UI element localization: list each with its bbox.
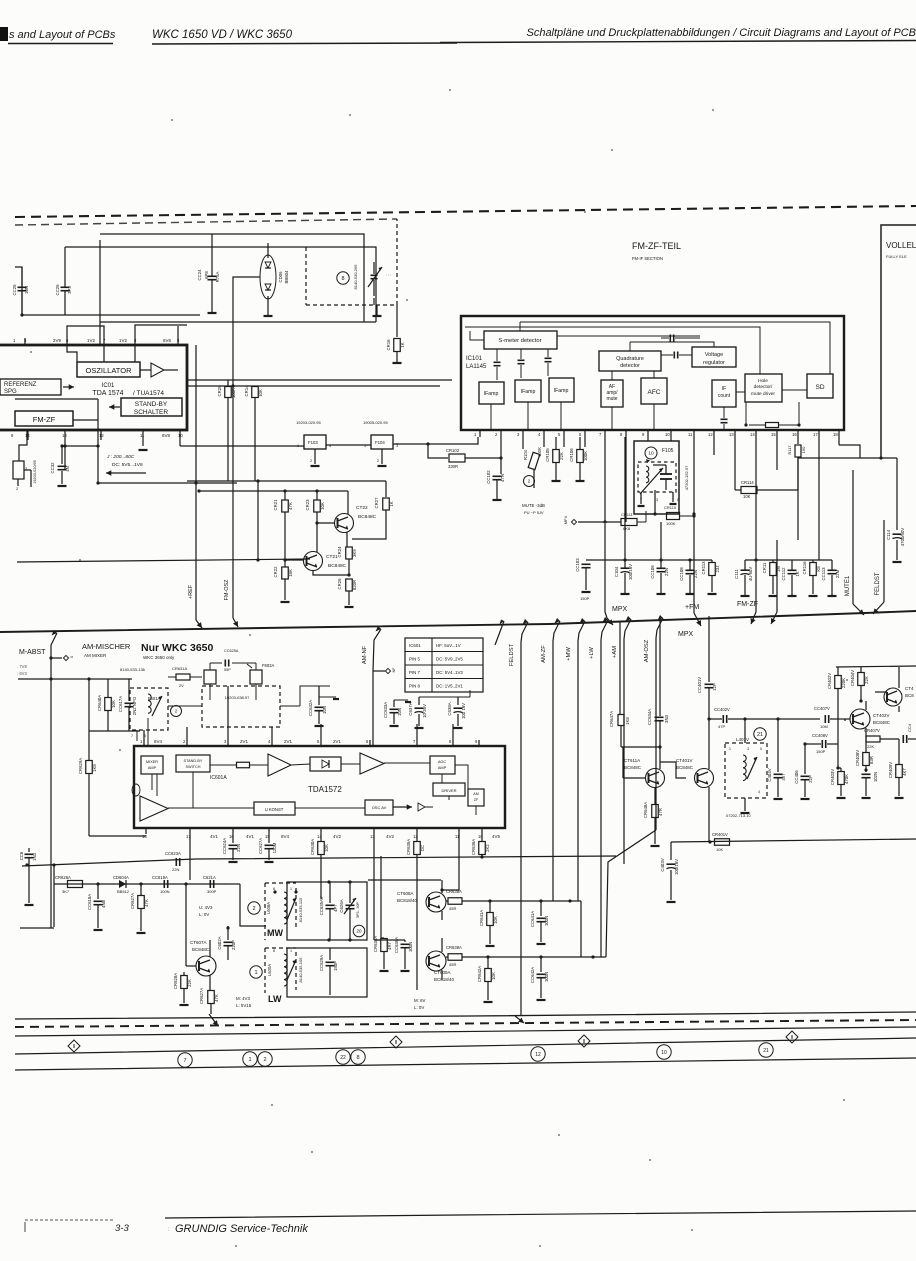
svg-text:21: 21 (757, 732, 763, 738)
svg-text:102N: 102N (873, 772, 878, 782)
svg-text:C403V: C403V (660, 858, 665, 871)
svg-text:MW: MW (267, 928, 283, 938)
block Hole detector mute driver (745, 374, 782, 402)
svg-text:BC818/40: BC818/40 (397, 898, 418, 903)
svg-text:CD06: CD06 (278, 271, 283, 283)
svg-text:CR641A: CR641A (479, 910, 484, 926)
svg-text:CC113: CC113 (821, 567, 826, 581)
block S-meter detector (484, 331, 557, 349)
svg-text:CR113: CR113 (701, 561, 706, 575)
filter F103 (296, 420, 331, 466)
capacitor CC641A (530, 901, 549, 944)
capacitor CC24 (197, 234, 220, 313)
label J temp note (106, 454, 146, 476)
svg-text:15: 15 (771, 432, 776, 437)
svg-text:20: 20 (356, 929, 362, 934)
svg-text:NF: NF (392, 668, 396, 673)
label MUTE1 (845, 470, 864, 615)
wire right stage rails (778, 666, 916, 768)
svg-text:regulator: regulator (703, 360, 725, 366)
connector diamond 1 (68, 1040, 80, 1052)
svg-text:L401V: L401V (736, 737, 749, 742)
svg-text:C626A: C626A (339, 899, 344, 912)
label AM-ABST (17, 649, 46, 676)
filter F105 (634, 437, 689, 516)
wire pin12 bottom rail (96, 399, 237, 485)
svg-text:10K: 10K (258, 389, 263, 397)
svg-text:CR110: CR110 (664, 505, 677, 510)
transistor CT21 BC848C (285, 552, 347, 571)
svg-text:120M: 120M (272, 842, 277, 853)
svg-text:AM-MISCHER: AM-MISCHER (82, 642, 131, 651)
wire oszillator pins (67, 345, 135, 362)
transistor CT608A BC818 (397, 880, 446, 920)
wire osc rail2 (89, 730, 140, 732)
svg-text:7: 7 (183, 1058, 186, 1064)
wire lower rail (17, 559, 310, 562)
svg-text:10: 10 (178, 433, 183, 438)
svg-text:AMP: AMP (438, 766, 447, 770)
svg-text:4R7: 4R7 (387, 941, 392, 949)
wire +REF vertical (196, 345, 202, 628)
svg-text:22: 22 (340, 1055, 346, 1061)
svg-text:CC108: CC108 (679, 567, 684, 581)
svg-text:18K: 18K (288, 569, 293, 577)
block DRIVER (433, 783, 465, 796)
resistor CR642A (477, 957, 496, 1002)
svg-text:1V2: 1V2 (87, 338, 96, 343)
op-amp box OSZILLATOR (77, 362, 140, 377)
svg-text:WKC 3650 only: WKC 3650 only (143, 655, 175, 660)
resistor internal (210, 762, 268, 768)
resistor CR113 (701, 560, 720, 594)
svg-text:100K: 100K (583, 451, 588, 461)
capacitor C409V (862, 768, 879, 798)
svg-text:AM-ZF: AM-ZF (541, 645, 547, 663)
svg-text:300P: 300P (207, 889, 217, 894)
svg-text:CR16: CR16 (386, 339, 391, 351)
svg-text:CR29: CR29 (217, 385, 222, 397)
label MPX am (678, 631, 694, 638)
svg-text:AGC: AGC (438, 760, 446, 764)
svg-text:CT611A: CT611A (624, 758, 640, 763)
label M4V3 (236, 996, 252, 1008)
svg-text:CR634A: CR634A (373, 936, 378, 952)
block AF amp mute (601, 380, 623, 407)
IC U IC601A TDA1572 outline (134, 746, 505, 828)
capacitor CC25 (12, 267, 29, 315)
box LW caps (287, 948, 367, 997)
wire mw rail top (368, 879, 441, 881)
svg-text:DC: 5V5...1V8: DC: 5V5...1V8 (112, 462, 143, 468)
inductor L401V (725, 719, 767, 818)
resistor CR115 (762, 560, 781, 596)
page corner mark (0, 27, 8, 41)
capacitor CC108 (679, 560, 698, 594)
svg-text:22K: 22K (559, 452, 564, 460)
svg-text:4V1: 4V1 (210, 834, 219, 839)
capacitor CC106 (650, 522, 669, 594)
wire +AM tap (612, 616, 631, 864)
svg-text:FELDST: FELDST (509, 643, 515, 666)
svg-text:CC401V: CC401V (697, 677, 702, 693)
svg-text:100K: 100K (537, 447, 542, 457)
svg-text:SD: SD (815, 384, 824, 391)
svg-text:CR629A: CR629A (78, 758, 83, 774)
svg-text:100N: 100N (408, 942, 413, 952)
resistor CR26 (337, 578, 357, 607)
wire row2 rail (605, 558, 712, 561)
wire +MW tap (566, 618, 585, 901)
resistor CR111 (605, 511, 646, 531)
svg-text:CC627A: CC627A (258, 838, 263, 854)
svg-text:CC635AV: CC635AV (319, 896, 324, 915)
svg-text:10-35V: 10-35V (422, 704, 427, 718)
svg-text:IC101: IC101 (466, 356, 483, 362)
block IFamp 1 (479, 382, 504, 404)
svg-text:FM-OSZ: FM-OSZ (224, 579, 230, 601)
wire AM-OSZ tap (644, 615, 663, 830)
connector circle 7 (178, 1053, 192, 1067)
svg-text:CR21: CR21 (273, 499, 278, 511)
adjust point 21 (754, 728, 766, 740)
svg-text:22N: 22N (172, 867, 179, 872)
svg-text:C637A: C637A (408, 702, 413, 715)
svg-text:C602A: C602A (217, 936, 222, 949)
svg-text:16: 16 (792, 432, 797, 437)
svg-text:count: count (718, 393, 731, 399)
wire mw link (218, 884, 266, 930)
svg-text:CD604A: CD604A (113, 875, 129, 880)
svg-text:CC625A: CC625A (224, 649, 239, 653)
svg-text:AMP: AMP (148, 766, 157, 770)
filter crystal F02 (13, 431, 37, 491)
block REFERENZ SPG (0, 379, 74, 395)
capacitor C111 (734, 560, 753, 596)
wire bottom bus 3 (15, 1038, 916, 1054)
svg-text:2V1: 2V1 (284, 739, 293, 744)
resistor CR635A (406, 834, 425, 990)
node AM-NF (362, 626, 396, 746)
capacitor left (19, 848, 37, 905)
svg-text:CT4: CT4 (905, 686, 914, 691)
wire left rail (15, 240, 200, 345)
resistor CR636A (471, 834, 490, 859)
footer GRUNDIG Service-Technik (168, 1223, 308, 1235)
svg-text:8140-535-115: 8140-535-115 (298, 897, 303, 922)
svg-text:8: 8 (341, 276, 344, 282)
resistor CR631A (168, 666, 202, 688)
svg-text:4N8: 4N8 (101, 899, 106, 907)
wire am lower rail (22, 856, 616, 867)
svg-text:+LW: +LW (589, 647, 595, 659)
resistor CR407V (864, 728, 899, 749)
svg-text:8: 8 (273, 887, 275, 891)
label U4V3 (199, 905, 213, 917)
block Voltage regulator (692, 347, 736, 367)
header model title WKC 1650 VD / WKC 3650 (152, 29, 457, 44)
resistor CR630A (310, 834, 329, 872)
resistor CR116 (802, 560, 821, 596)
svg-text:PIN 5: PIN 5 (409, 657, 421, 662)
svg-text:CT22: CT22 (356, 505, 368, 511)
svg-text:Hole: Hole (758, 378, 768, 384)
svg-text:1: 1 (248, 1057, 251, 1063)
svg-text:6V8: 6V8 (162, 433, 171, 438)
svg-text:21: 21 (763, 1048, 769, 1054)
svg-text:DC: DC (420, 845, 425, 851)
svg-text:CR23: CR23 (305, 499, 310, 511)
svg-text:CR648A: CR648A (643, 802, 648, 818)
connector diamond 3 (578, 1035, 590, 1047)
svg-text:CT401V: CT401V (676, 758, 693, 763)
svg-text:BC848C: BC848C (328, 563, 347, 569)
svg-text:CC642A: CC642A (530, 967, 535, 983)
svg-text:/ TUA1574: / TUA1574 (133, 390, 164, 397)
resistor CR628A (173, 972, 192, 1005)
wire osc top right (419, 690, 470, 697)
section title FM-ZF-TEIL (632, 241, 681, 261)
svg-text:CC4: CC4 (907, 723, 912, 732)
svg-text:2V: 2V (179, 684, 184, 688)
bus tap arrows bottom (209, 1014, 524, 1026)
wire signal pair to IC101 (187, 380, 452, 386)
svg-text:330R: 330R (448, 464, 458, 469)
node MPX mid (564, 437, 607, 525)
svg-text:CR14: CR14 (244, 385, 249, 397)
capacitor CC629A (319, 948, 338, 995)
svg-text:CR639A: CR639A (446, 945, 462, 950)
wire to CT607A (186, 884, 196, 966)
svg-text:12: 12 (535, 1052, 541, 1058)
svg-text:220K: 220K (841, 678, 846, 688)
svg-text:2: 2 (263, 1057, 266, 1063)
svg-text:CC407V: CC407V (814, 706, 830, 711)
svg-text:CR626A: CR626A (55, 875, 71, 880)
connector diamond 4 (786, 1031, 798, 1043)
svg-text:CR631A: CR631A (172, 666, 187, 671)
wire pin17 18 right (839, 437, 860, 458)
svg-text:3K9: 3K9 (352, 549, 357, 557)
resistor CR24 (337, 532, 357, 577)
svg-text:PIN 8: PIN 8 (409, 684, 421, 689)
svg-text:CC624A: CC624A (222, 838, 227, 854)
svg-text:4V2: 4V2 (386, 834, 395, 839)
svg-text:10K: 10K (743, 494, 751, 499)
label FM-OSZ (224, 579, 230, 601)
wire osc mid (168, 686, 330, 706)
svg-text:C621A: C621A (203, 875, 216, 880)
svg-text:CR647A: CR647A (609, 711, 614, 727)
svg-text:5P3...30P: 5P3...30P (356, 902, 360, 918)
svg-text:150P: 150P (580, 596, 590, 601)
IC U IC01 TDA1574 outline (0, 345, 187, 430)
svg-text:CT608A: CT608A (397, 891, 414, 896)
svg-text:23J: 23J (715, 566, 720, 573)
wire mpx am vertical (495, 620, 504, 646)
svg-text:MIXER: MIXER (146, 760, 158, 764)
svg-text:3: 3 (329, 444, 331, 448)
label IC101 LA1145 (466, 356, 487, 370)
svg-text:4N: 4N (65, 466, 70, 472)
wire bottom am rail (671, 839, 916, 844)
capacitor C637A (408, 697, 427, 728)
resistor CR640A (97, 679, 116, 731)
svg-text:19203-020/95: 19203-020/95 (33, 460, 37, 483)
svg-text:CT21: CT21 (326, 554, 338, 560)
resistor CR641A (479, 901, 498, 946)
svg-text:CT402V: CT402V (873, 713, 890, 718)
svg-text:REFERENZ: REFERENZ (4, 382, 37, 388)
svg-text:CR116: CR116 (802, 561, 807, 575)
svg-text:100 16V: 100 16V (461, 703, 466, 719)
transistor CT403V (861, 667, 914, 712)
svg-text:S-meter detector: S-meter detector (498, 338, 541, 344)
svg-text:F601A: F601A (148, 696, 161, 701)
svg-text:MPX: MPX (564, 515, 568, 524)
block U KONST (254, 802, 295, 815)
svg-text:CR635A: CR635A (406, 839, 411, 855)
svg-text:8V4: 8V4 (281, 834, 290, 839)
svg-text:CC112: CC112 (781, 567, 786, 581)
block IFamp 2 (515, 380, 541, 402)
capacitor C104 (614, 437, 633, 594)
svg-text:CC634A: CC634A (647, 709, 652, 725)
svg-text:CC402V: CC402V (714, 707, 730, 712)
wire pin17 down (190, 834, 269, 888)
svg-text:BC848C: BC848C (358, 514, 377, 520)
wire left am rail (18, 658, 132, 928)
footer rule left (25, 1220, 115, 1232)
label MW (248, 902, 284, 938)
resistor CR621A (199, 988, 219, 1014)
svg-text:J : 200...80C: J : 200...80C (106, 454, 135, 460)
svg-text:470K: 470K (844, 774, 849, 784)
svg-text:150P: 150P (816, 749, 826, 754)
svg-text:FM-IF SECTION: FM-IF SECTION (632, 256, 663, 261)
svg-text:CR627A: CR627A (199, 988, 204, 1004)
transistor CT402V BC848C (845, 699, 891, 748)
svg-text:22N: 22N (236, 844, 241, 852)
potentiometer R104 (523, 437, 542, 488)
svg-text:4V1: 4V1 (246, 834, 255, 839)
svg-text:CC617A: CC617A (118, 696, 123, 712)
wire main bus (0, 611, 916, 632)
wire +LW tap (589, 617, 608, 957)
svg-text:100/16V: 100/16V (628, 564, 633, 580)
svg-text:MPX: MPX (678, 631, 694, 638)
capacitor CC618A (87, 882, 106, 930)
svg-text:1N3: 1N3 (32, 852, 37, 860)
svg-text:3N3: 3N3 (664, 714, 669, 722)
wire FELDST long down (515, 1015, 521, 1016)
wire pin12 (713, 437, 715, 455)
svg-text:+FM: +FM (685, 604, 699, 611)
block AM ZF (468, 789, 484, 806)
svg-text:4P7: 4P7 (333, 904, 338, 912)
dashed bottom border (15, 1020, 916, 1027)
svg-text:CR409V: CR409V (888, 762, 893, 778)
wire ct22 mid rail (197, 489, 348, 492)
resistor CR409V (888, 739, 907, 798)
resistor CR14 (244, 385, 263, 481)
svg-text:2K2: 2K2 (485, 844, 490, 852)
wire mpx out rail (743, 717, 820, 720)
resistor CR408V (855, 748, 874, 770)
capacitor CC103 (575, 524, 605, 601)
svg-text:1: 1 (290, 949, 292, 953)
svg-text:47K: 47K (288, 502, 293, 510)
capacitor CC32 (50, 444, 70, 486)
svg-text:3: 3 (396, 444, 398, 448)
resistor CR114 (735, 437, 798, 499)
svg-text:10K: 10K (716, 847, 723, 852)
block OSC AV (365, 800, 433, 815)
svg-text:10N: 10N (397, 708, 402, 716)
resistor CR401V (712, 832, 730, 852)
svg-text:CR627A: CR627A (130, 893, 135, 909)
block Quadrature detector (599, 351, 661, 371)
svg-text:IFamp: IFamp (484, 391, 499, 397)
svg-text:CR638A: CR638A (446, 889, 462, 894)
capacitor CC623A (165, 851, 181, 872)
svg-text:CR408V: CR408V (855, 750, 860, 766)
capacitor CC627A (258, 834, 277, 862)
resistor CR648A (643, 802, 663, 846)
buffer triangle (140, 363, 178, 377)
svg-text:4U-50V: 4U-50V (748, 567, 753, 582)
svg-text:CR11: CR11 (762, 562, 767, 573)
svg-text:CC618A: CC618A (87, 894, 92, 910)
svg-text:DC: 5V9..2V5: DC: 5V9..2V5 (436, 657, 463, 662)
wire pin8 up (67, 325, 187, 338)
internal bottom wires IC101 (491, 402, 801, 430)
resistor CR638A (446, 889, 581, 911)
svg-text:MUTE -3dB: MUTE -3dB (522, 503, 545, 508)
svg-text:Nur WKC 3650: Nur WKC 3650 (141, 642, 214, 654)
svg-text:47P: 47P (718, 724, 725, 729)
svg-text:CC641A: CC641A (530, 911, 535, 927)
op-amp triangle 3 (132, 784, 254, 821)
svg-text:OSZILLATOR: OSZILLATOR (86, 366, 133, 375)
svg-text:10M: 10M (820, 724, 828, 729)
svg-text:100N: 100N (544, 972, 549, 982)
wire top frame A (100, 234, 364, 322)
capacitor C602A (217, 884, 236, 960)
block SD (807, 374, 833, 398)
IC01 bottom pin labels (11, 430, 183, 470)
resistor CR105 (545, 437, 564, 481)
internal wires IC601 (152, 765, 476, 815)
svg-text:1: 1 (297, 444, 299, 448)
wire pin14 down (321, 834, 459, 940)
svg-text:BC848C: BC848C (676, 765, 694, 770)
connector circles 1 2 (243, 1052, 272, 1066)
capacitor CC113 (821, 560, 840, 596)
wire mpx column (573, 524, 575, 560)
adjust point 20 (353, 925, 365, 937)
svg-text:C638A: C638A (447, 702, 452, 715)
label FELDST right (873, 520, 884, 614)
svg-text:M: 4V3: M: 4V3 (236, 996, 250, 1001)
svg-text:CR630A: CR630A (310, 839, 315, 855)
svg-text:19005-020.95: 19005-020.95 (363, 420, 388, 425)
svg-text:+AM: +AM (612, 646, 618, 658)
svg-text:IFamp: IFamp (521, 389, 536, 395)
svg-text:100N: 100N (160, 889, 170, 894)
svg-text:STAND-BY: STAND-BY (135, 401, 168, 408)
svg-text:12P: 12P (712, 683, 717, 691)
